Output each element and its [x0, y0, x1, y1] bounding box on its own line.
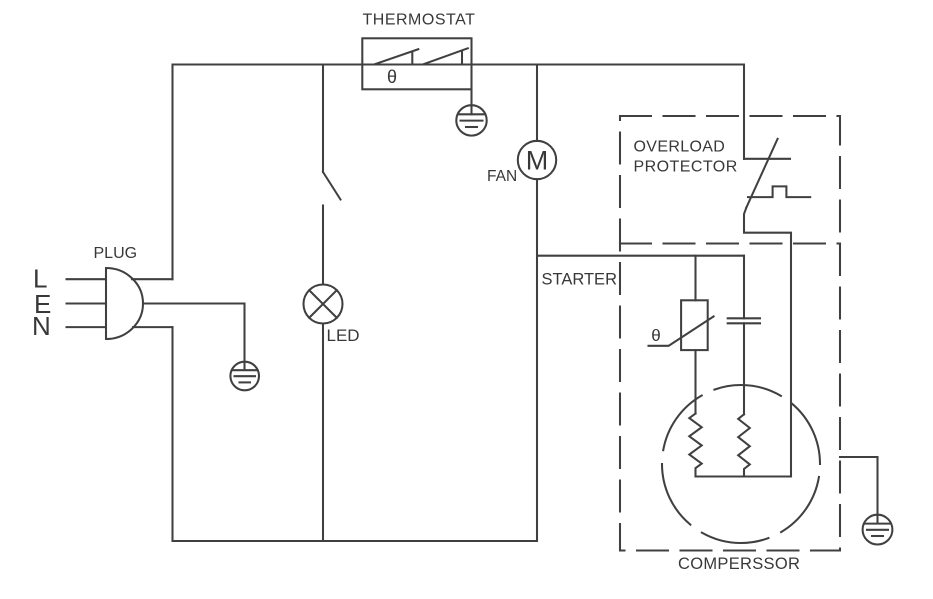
wire: lamp branch middle [322, 206, 324, 285]
wire: starter bus [537, 255, 744, 257]
thermostat contact 2 blade [424, 48, 468, 64]
switch: door switch blade [323, 172, 341, 200]
winding: auxiliary (zigzag) [738, 414, 750, 476]
wire: top bus [173, 63, 745, 65]
wire: fan branch lower [536, 179, 538, 541]
wire: PTC to main winding [694, 350, 696, 413]
wire: E prong [67, 302, 107, 304]
svg-text:PLUG: PLUG [94, 245, 138, 262]
svg-text:COMPERSSOR: COMPERSSOR [678, 555, 800, 573]
compressor shell (dashed circle) [662, 385, 820, 543]
wire: capacitor to auxiliary winding [743, 323, 745, 414]
winding: main (zigzag) [689, 414, 701, 477]
wire: capacitor drop [743, 256, 745, 319]
PTC starter body [681, 300, 708, 350]
ground: plug earth [230, 362, 259, 391]
wire: overload input drop [743, 65, 745, 159]
motor M (fan) [518, 141, 556, 179]
thermostat box [362, 38, 471, 89]
overload fixed contact [744, 158, 790, 160]
wire: thermostat earth drop [470, 89, 472, 114]
svg-text:N: N [32, 311, 51, 341]
thermostat contact 1 blade [375, 49, 419, 64]
svg-text:θ: θ [651, 326, 660, 345]
svg-text:OVERLOAD: OVERLOAD [634, 139, 726, 156]
thermostat contact 1 tick [411, 52, 413, 64]
capacitor plates [728, 318, 760, 323]
lamp LED symbol [304, 285, 343, 324]
PTC thermistor stroke [649, 316, 714, 345]
wire: PTC branch drop [694, 256, 696, 301]
wire: overload output jog [744, 208, 791, 477]
ground: compressor earth [863, 515, 893, 545]
enclosure: dashed divider line [620, 242, 840, 244]
wire: compressor case earth [840, 457, 878, 523]
svg-text:FAN: FAN [487, 168, 517, 185]
wire: L prong [67, 278, 107, 280]
thermostat contact 2 tick [461, 52, 463, 64]
wire: lamp branch lower [322, 324, 324, 542]
enclosure: outer dashed box [620, 116, 840, 551]
svg-text:PROTECTOR: PROTECTOR [634, 159, 738, 176]
wire: lamp branch upper [322, 65, 324, 173]
overload switch blade [746, 139, 777, 208]
wire: plug N terminal to left vertical [133, 326, 173, 328]
svg-text:THERMOSTAT: THERMOSTAT [363, 12, 476, 29]
svg-text:STARTER: STARTER [542, 271, 618, 289]
svg-text:LED: LED [327, 326, 360, 345]
svg-text:θ: θ [387, 67, 397, 87]
wire: left vertical (L) from top bus down to plug [171, 65, 173, 280]
wire: N prong [67, 326, 107, 328]
ground: thermostat earth [456, 105, 486, 135]
wire: plug E terminal to earth [143, 304, 245, 371]
svg-text:M: M [526, 146, 549, 176]
wire: plug L terminal to left vertical [132, 278, 173, 280]
wire: fan branch upper [536, 65, 538, 142]
overload bimetal heater [748, 186, 810, 197]
OVERLOAD PROTECTOR label [634, 139, 738, 176]
wire: bottom bus [173, 540, 538, 542]
plug body [106, 268, 143, 339]
wire: winding common bottom [696, 475, 792, 477]
wire: left vertical (N) down to bottom bus [171, 327, 173, 541]
